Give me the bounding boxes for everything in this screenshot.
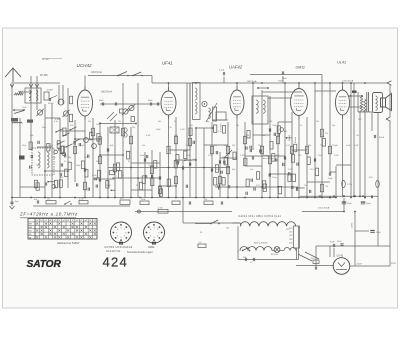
svg-text:o2: o2 [94,220,96,222]
svg-text:50µF: 50µF [328,178,333,180]
svg-text:25n: 25n [118,121,121,123]
svg-text:0,1M: 0,1M [158,208,163,210]
svg-text:2n: 2n [174,121,176,123]
svg-text:d2: d2 [50,220,52,222]
svg-text:Sockelschaltungen: Sockelschaltungen [127,250,153,254]
svg-text:0,1M: 0,1M [354,145,359,147]
svg-text:50k: 50k [204,199,207,201]
svg-text:UM11: UM11 [296,66,305,70]
svg-text:8: 8 [150,229,151,231]
svg-text:75k: 75k [325,186,328,188]
svg-text:5: 5 [120,237,121,239]
svg-text:20k: 20k [36,165,39,167]
svg-text:m2: m2 [85,220,88,222]
svg-text:i2: i2 [72,220,73,222]
svg-text:20k: 20k [47,199,50,201]
svg-text:0,1M: 0,1M [79,199,84,201]
svg-text:70p: 70p [132,127,135,129]
svg-text:150pF: 150pF [332,145,338,147]
svg-text:40k: 40k [308,145,311,147]
svg-text:LW: LW [29,230,32,232]
svg-text:6V0,1A: 6V0,1A [271,253,278,256]
svg-text:25nF: 25nF [22,107,27,109]
svg-text:UCH42 UF41UAF42: UCH42 UF41UAF42 [105,246,133,249]
svg-text:KW: KW [29,224,32,226]
svg-text:1: 1 [153,228,154,230]
svg-text:50µF: 50µF [376,232,381,234]
svg-text:0,3M: 0,3M [55,119,60,121]
svg-text:20k: 20k [262,135,265,137]
svg-text:50k: 50k [298,155,301,157]
svg-text:22nF: 22nF [330,242,335,244]
svg-text:0,1µF: 0,1µF [48,145,54,147]
svg-text:120V,40mA: 120V,40mA [342,80,354,83]
svg-text:4,5: 4,5 [250,262,253,264]
svg-text:1M: 1M [232,145,235,147]
svg-text:0,3M: 0,3M [146,135,151,137]
svg-text:a2: a2 [36,220,38,222]
svg-text:1k: 1k [122,175,124,177]
svg-text:50p: 50p [206,121,209,123]
svg-text:20k: 20k [316,121,319,123]
svg-text:220V: 220V [352,222,354,228]
svg-text:6,8nF: 6,8nF [379,137,385,139]
svg-text:10nF: 10nF [346,145,351,147]
svg-text:0,1µF: 0,1µF [18,91,24,93]
svg-text:6,8k: 6,8k [30,135,34,137]
svg-text:3: 3 [158,232,159,234]
svg-text:25nF: 25nF [216,169,221,171]
svg-text:5n: 5n [252,121,254,123]
svg-text:50k: 50k [88,121,91,123]
svg-text:5: 5 [153,237,154,239]
svg-text:7: 7 [149,232,150,234]
svg-text:100pF: 100pF [148,165,154,167]
svg-text:450p: 450p [22,145,26,147]
svg-text:180V,5mA: 180V,5mA [101,91,112,94]
svg-text:n2: n2 [89,220,91,222]
svg-text:16µF: 16µF [76,165,81,167]
svg-text:8: 8 [117,229,118,231]
svg-text:0,5M: 0,5M [84,157,89,159]
svg-text:50pF: 50pF [224,145,229,147]
svg-text:100,120mA: 100,120mA [318,207,330,210]
svg-text:50µF: 50µF [366,203,371,205]
svg-text:30pF: 30pF [140,155,145,157]
svg-text:185V,8mA: 185V,8mA [247,80,258,83]
svg-text:UY 41: UY 41 [337,255,344,258]
svg-text:3: 3 [125,232,126,234]
svg-text:0,1µF: 0,1µF [219,70,225,72]
svg-text:0,1M: 0,1M [288,169,293,171]
svg-text:2: 2 [157,229,158,231]
svg-text:SATOR: SATOR [27,259,62,270]
svg-text:4P-380: 4P-380 [40,74,48,77]
svg-text:68pF: 68pF [99,100,104,102]
svg-text:50pF: 50pF [156,129,161,131]
svg-text:10nF: 10nF [318,155,323,157]
svg-text:50µF: 50µF [347,203,352,205]
svg-text:MW: MW [29,227,33,229]
svg-text:Netz ja 60/110: Netz ja 60/110 [254,242,268,245]
svg-text:40k: 40k [158,121,161,123]
svg-text:ZF=472kHz u.10,7MHz: ZF=472kHz u.10,7MHz [19,212,78,217]
svg-text:3k: 3k [136,185,138,187]
svg-text:UF41: UF41 [162,61,173,66]
svg-text:4: 4 [157,236,158,238]
svg-text:3k: 3k [128,161,130,163]
svg-text:UL41UY41: UL41UY41 [106,250,121,253]
svg-text:100V,2mA: 100V,2mA [91,71,102,74]
svg-text:UM11: UM11 [148,246,155,249]
svg-text:l2: l2 [81,220,82,222]
svg-text:424: 424 [103,255,129,270]
svg-text:1n: 1n [300,125,302,127]
svg-text:1M: 1M [356,135,359,137]
svg-text:30k: 30k [186,145,189,147]
svg-text:470pF: 470pF [47,90,54,92]
svg-text:0,2M: 0,2M [112,169,117,171]
svg-text:50k: 50k [70,125,73,127]
svg-text:UAF42 UF41 UM11 UCH42 UL41: UAF42 UF41 UM11 UCH42 UL41 [239,215,282,218]
svg-text:0,5M: 0,5M [334,155,339,157]
svg-text:UAF42: UAF42 [229,65,243,70]
svg-text:h2: h2 [67,220,69,222]
svg-text:0,5M: 0,5M [208,155,213,157]
svg-text:0,2M: 0,2M [268,121,273,123]
svg-text:UL41: UL41 [337,61,346,65]
svg-text:beschaltung: beschaltung [263,157,274,160]
svg-text:f2: f2 [59,220,61,222]
svg-text:7: 7 [116,232,117,234]
svg-text:50p: 50p [332,125,335,127]
svg-text:60pF: 60pF [106,185,111,187]
svg-text:75k: 75k [325,133,328,135]
svg-text:4: 4 [124,236,125,238]
svg-text:450pF: 450pF [48,103,55,105]
svg-text:220V: 220V [391,263,396,265]
svg-text:e2: e2 [54,220,56,222]
svg-text:68pF: 68pF [148,100,153,102]
svg-text:6: 6 [117,236,118,238]
svg-text:6: 6 [150,236,151,238]
svg-text:30k: 30k [236,125,239,127]
svg-text:KD-380: KD-380 [42,59,50,61]
svg-text:1,5k: 1,5k [52,157,56,159]
svg-text:0,2M: 0,2M [92,175,97,177]
svg-text:0,3M: 0,3M [240,155,245,157]
svg-text:16µF: 16µF [96,161,101,163]
svg-text:0,5M: 0,5M [126,151,131,153]
svg-text:1: 1 [120,228,121,230]
svg-text:20k: 20k [246,135,249,137]
svg-text:2: 2 [124,229,125,231]
svg-text:c2: c2 [45,220,47,222]
svg-text:Heftnummer 516/IV: Heftnummer 516/IV [57,241,80,245]
svg-text:60p: 60p [68,157,71,159]
svg-text:UCH42: UCH42 [77,63,93,68]
svg-text:220V~: 220V~ [357,264,364,266]
svg-text:1,5k: 1,5k [168,127,172,129]
svg-text:1,75k: 1,75k [347,184,352,186]
svg-text:75k: 75k [320,145,323,147]
svg-text:k2: k2 [76,220,78,222]
svg-text:22nF: 22nF [337,241,342,243]
svg-text:g2: g2 [63,220,65,222]
svg-text:25nF: 25nF [141,199,146,201]
svg-text:0,1M: 0,1M [186,155,191,157]
svg-text:40k: 40k [142,145,145,147]
svg-text:0,1M: 0,1M [180,129,185,131]
svg-text:70pF: 70pF [272,125,277,127]
svg-text:1M: 1M [190,125,193,127]
svg-text:50pF: 50pF [258,145,263,147]
svg-text:45mA: 45mA [294,137,297,143]
svg-text:1k: 1k [64,161,66,163]
svg-text:b2: b2 [41,220,43,222]
